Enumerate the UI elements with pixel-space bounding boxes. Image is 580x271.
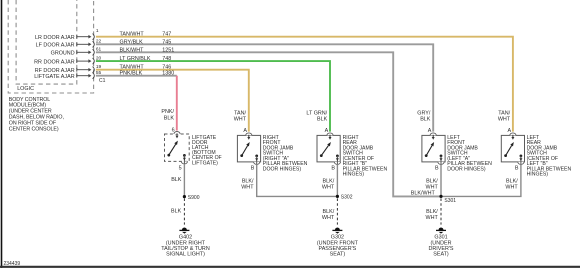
svg-text:A: A [428,128,432,134]
svg-text:745: 745 [162,39,171,45]
switch SW5 left rear door jamb switch [501,133,524,165]
svg-text:TAN/: TAN/ [234,110,246,116]
wire GRY/BLK 745 (LF door ajar, pin 22 to left front switch) [96,44,433,131]
svg-text:PNK/BLK: PNK/BLK [120,71,143,77]
wire PNK/BLK 1380 horizontal segment (liftgate ajar, pin 55) [96,75,177,77]
svg-text:C1: C1 [99,78,106,84]
svg-text:B: B [435,165,439,171]
svg-text:B: B [331,165,335,171]
svg-text:BLK/: BLK/ [323,209,335,215]
value label TAN/WHT at x=513 [498,110,511,122]
svg-text:SEAT): SEAT) [433,252,449,258]
ground G302 symbol [332,228,342,234]
switch SW1 liftgate door latch (dashed box) [165,131,190,163]
svg-text:A: A [325,128,329,134]
svg-text:HINGES): HINGES) [343,172,365,178]
wire stub and connector symbol pin 19 [77,67,95,73]
wire stub and connector symbol pin 20 [77,58,95,64]
wire BLK/WHT from SW3 pin B to splice S302 [336,164,338,196]
BCM logic inner dashed box [16,0,77,84]
pin A label of SW3 right rear door jamb switch [325,128,329,134]
svg-text:WHT: WHT [234,117,247,123]
svg-text:GRY/BLK: GRY/BLK [120,39,144,45]
pin B label of SW3 right rear door jamb switch [331,165,335,171]
ground G301 symbol [436,228,446,234]
label ground G402 [161,235,210,258]
svg-text:SEAT): SEAT) [330,252,346,258]
body control module U1 outer dashed box [8,0,93,93]
svg-text:TAN/WHT: TAN/WHT [120,32,145,38]
svg-text:BLK/: BLK/ [323,178,335,184]
value label GRY/BLK at x=433 [417,110,431,122]
ground G402 symbol [179,228,189,234]
label BCM location [9,97,64,133]
label SW4 left front door jamb switch location [447,135,492,173]
svg-text:S900: S900 [188,195,200,201]
svg-text:DOOR HINGES): DOOR HINGES) [447,166,486,172]
svg-text:WHT: WHT [322,184,335,190]
svg-text:S302: S302 [341,195,353,201]
svg-text:LT GRN/: LT GRN/ [306,110,327,116]
value label LT GRN/BLK at x=330 [306,110,327,122]
svg-text:1380: 1380 [162,71,174,77]
svg-text:GRY/: GRY/ [417,110,431,116]
pin number 1 [96,28,99,34]
svg-text:BLK: BLK [171,208,182,214]
value label BLK/WHT at SW4 [426,178,439,190]
node LF DOOR AJAR label inside BCM [36,43,75,49]
wire PNK/BLK 1380 vertical segment to liftgate latch [176,76,178,131]
border frame left edge [1,0,3,268]
value label BLK/WHT 1251 [120,47,175,53]
svg-text:BLK/: BLK/ [506,178,518,184]
value label PNK/BLK 1380 [120,71,175,77]
svg-text:1: 1 [96,28,99,34]
splice S302 [336,195,353,201]
svg-text:LIFTGATE AJAR: LIFTGATE AJAR [34,74,74,80]
svg-text:BLK: BLK [164,115,175,121]
svg-text:DOOR HINGES): DOOR HINGES) [263,166,302,172]
value label TAN/WHT at x=249 [234,110,247,122]
wire BLK/WHT from SW2 pin B to splice S302 [257,164,338,196]
diagram number 234439 [4,261,21,267]
wire BLK from liftgate latch pin 5 to splice S900 [183,164,185,197]
svg-text:RR DOOR AJAR: RR DOOR AJAR [34,59,75,65]
switch SW3 right rear door jamb switch [317,133,341,165]
value label BLK/WHT at SW2 [241,178,254,190]
svg-text:BLK/WHT: BLK/WHT [120,47,145,53]
label SW3 right rear door jamb switch location [343,135,388,178]
value label BLK/WHT (S302 to G302) [322,209,335,221]
pin number 19 [96,64,102,70]
value label BLK (latch to S900) [171,177,182,183]
svg-text:BLK/: BLK/ [242,178,254,184]
value label BLK (S900 to G402) [171,208,182,214]
svg-text:BLK/: BLK/ [426,178,438,184]
svg-text:WHT: WHT [498,117,511,123]
value label BLK/WHT at SW5 [505,178,518,190]
value label TAN/WHT 746 [120,65,172,71]
svg-text:WHT: WHT [322,215,335,221]
pin A label of SW2 right front door jamb switch [243,128,247,134]
label LOGIC [17,86,34,92]
svg-text:WHT: WHT [241,184,254,190]
svg-text:WHT: WHT [505,184,518,190]
svg-text:LOGIC: LOGIC [17,86,34,92]
wire stub and connector symbol pin 55 [77,73,95,79]
splice S900 [183,195,200,201]
svg-text:748: 748 [162,56,171,62]
svg-text:SIGNAL LIGHT): SIGNAL LIGHT) [166,252,205,258]
svg-text:BLK/WHT: BLK/WHT [411,190,436,196]
value label TAN/WHT 747 [120,32,172,38]
svg-text:BLK: BLK [317,117,328,123]
svg-text:S301: S301 [444,198,456,204]
svg-text:GROUND: GROUND [51,51,75,57]
svg-text:LT GRN/BLK: LT GRN/BLK [120,56,151,62]
border frame bottom edge [0,266,580,268]
svg-text:5: 5 [179,165,182,171]
pin number 55 [96,70,102,76]
pin 6 label [172,127,175,133]
pin number 20 [96,55,102,61]
wire TAN/WHT 747 (LR door ajar, pin 1 to left rear switch) [96,37,513,132]
pin A label of SW5 left rear door jamb switch [507,128,511,134]
value label GRY/BLK 745 [120,39,172,45]
value label BLK/WHT (S301 to G301) [426,209,439,221]
svg-text:747: 747 [162,32,171,38]
svg-text:B: B [515,165,519,171]
label liftgate latch location [192,135,222,166]
label ground G302 [317,235,359,258]
connector label C1 [99,78,106,84]
label SW5 left rear door jamb switch location [527,135,572,178]
label ground G301 [429,235,454,258]
value label PNK/BLK at x=177 [161,109,174,121]
wire stub and connector symbol pin 22 [77,41,95,47]
wire BLK/WHT from SW5 pin B to splice S301 [441,164,521,196]
splice S301 [439,195,456,204]
svg-text:BLK/: BLK/ [426,209,438,215]
value label BLK/WHT on ground bus [411,190,436,196]
svg-text:234439: 234439 [4,261,21,267]
pin A label of SW4 left front door jamb switch [428,128,432,134]
svg-text:BLK: BLK [171,177,182,183]
value label BLK/WHT at SW3 [322,178,335,190]
svg-text:A: A [243,128,247,134]
pin B label of SW4 left front door jamb switch [435,165,439,171]
wire LT GRN/BLK 748 (RR door ajar, pin 20 to right rear switch) [96,61,330,132]
wire BLK/WHT 1251 (ground, pin 61 to splice S301) [96,52,441,196]
svg-text:LIFTGATE): LIFTGATE) [192,160,218,166]
svg-text:LR DOOR AJAR: LR DOOR AJAR [35,35,75,41]
wire BLK from S900 to ground G402 (dashed) [183,198,185,224]
node GROUND label inside BCM [51,51,75,57]
wire BLK/WHT from S302 to ground G302 (dashed) [336,198,338,224]
svg-text:PNK/: PNK/ [161,109,174,115]
node LIFTGATE AJAR label inside BCM [34,74,74,80]
svg-text:B: B [251,165,255,171]
pin B label of SW2 right front door jamb switch [251,165,255,171]
svg-text:HINGES): HINGES) [527,172,549,178]
switch SW4 left front door jamb switch [422,133,445,165]
wire stub and connector symbol pin 61 [77,49,95,55]
svg-text:TAN/: TAN/ [498,110,510,116]
svg-text:CENTER CONSOLE): CENTER CONSOLE) [9,126,59,132]
node LR DOOR AJAR label inside BCM [35,35,75,41]
value label LT GRN/BLK 748 [120,56,172,62]
svg-text:6: 6 [172,127,175,133]
node RF DOOR AJAR label inside BCM [35,68,75,74]
pin number 61 [96,47,102,53]
wire TAN/WHT 746 (RF door ajar, pin 19 to right front switch) [96,70,249,132]
switch SW2 right front door jamb switch [237,133,260,164]
svg-text:A: A [507,128,511,134]
node RR DOOR AJAR label inside BCM [34,59,75,65]
pin 5 label [179,165,182,171]
svg-text:WHT: WHT [426,215,439,221]
pin B label of SW5 left rear door jamb switch [515,165,519,171]
label SW2 right front door jamb switch location [263,135,308,173]
wire BLK/WHT from S301 to ground G301 (dashed) [440,198,442,224]
wire BLK/WHT from SW4 pin B to splice S301 [440,164,442,196]
svg-text:1251: 1251 [162,47,174,53]
svg-text:LF DOOR AJAR: LF DOOR AJAR [36,43,75,49]
svg-text:BLK: BLK [420,117,431,123]
pin number 22 [96,39,102,45]
wire stub and connector symbol pin 1 [77,34,95,40]
